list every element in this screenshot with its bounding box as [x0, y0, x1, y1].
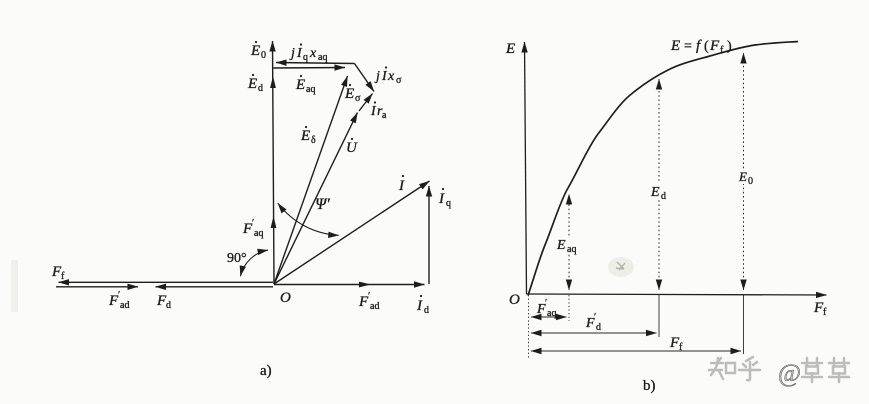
arrowhead Ed on axis: [270, 76, 276, 88]
label E delta: [300, 126, 316, 146]
axis Ff horizontal: [527, 294, 827, 295]
svg-text:d: d: [661, 191, 666, 202]
glyph cao 2: [829, 358, 849, 382]
dimension row F'd: [531, 332, 657, 334]
label Ff axis: [813, 300, 827, 318]
extension line left below axis: [528, 295, 530, 358]
svg-text:E: E: [556, 238, 566, 253]
svg-text:aq: aq: [547, 308, 556, 319]
svg-text:aq: aq: [318, 52, 327, 63]
arrowhead F'ad on right horizontal: [359, 282, 371, 288]
label E0: [250, 41, 266, 61]
label Id: [416, 295, 429, 316]
label Iq: [438, 188, 451, 209]
dimension row F'aq: [531, 316, 567, 318]
svg-text:E: E: [344, 86, 354, 102]
vector Ira: [359, 94, 373, 112]
label Ira: [370, 101, 387, 121]
svg-text:E: E: [247, 76, 257, 92]
svg-text:x: x: [309, 46, 317, 61]
wire horizontal right with Id arrow: [274, 284, 425, 286]
arrowhead F'aq on axis: [271, 216, 277, 228]
vector Eaq horizontal: [274, 67, 346, 70]
svg-text:ad: ad: [120, 300, 129, 311]
extension line at Ed below axis: [658, 295, 660, 337]
glyph zhi: [709, 358, 735, 379]
label jIx sigma: [374, 66, 402, 86]
svg-text:aq: aq: [567, 244, 576, 255]
svg-text:=: =: [684, 39, 692, 54]
svg-text:a): a): [260, 363, 272, 379]
svg-text:O: O: [509, 292, 520, 308]
label Ed: [247, 74, 263, 94]
svg-text:d: d: [166, 300, 171, 311]
glyph cao 1: [802, 358, 822, 382]
svg-text:F: F: [709, 38, 720, 54]
svg-text:I: I: [398, 178, 405, 194]
label Eaq: [295, 75, 315, 95]
svg-text:d: d: [596, 322, 601, 333]
vector Fd segment: [156, 286, 274, 288]
svg-text:E: E: [738, 169, 747, 184]
svg-text:aq: aq: [254, 228, 263, 239]
extension line at Eaq below axis: [568, 295, 570, 321]
watermark zhihu at caocao: [709, 357, 849, 387]
label I: [398, 175, 405, 194]
svg-text:0: 0: [261, 50, 266, 61]
svg-text:E: E: [505, 41, 515, 57]
svg-text:σ: σ: [355, 93, 361, 104]
label E sigma: [344, 84, 361, 104]
svg-text:b): b): [643, 378, 656, 394]
svg-text:ad: ad: [370, 301, 379, 312]
svg-text:O: O: [280, 290, 291, 306]
vector F'ad left segment: [56, 286, 138, 288]
label Eaq dim: [556, 236, 584, 255]
curve E=f(Ff): [528, 42, 798, 296]
svg-text:0: 0: [748, 176, 753, 187]
label F'd dim: [585, 312, 601, 333]
angle arc 90 degrees: [240, 250, 268, 276]
dimension line Ed vertical: [658, 79, 660, 290]
label F'aq dim: [536, 298, 556, 319]
faint left edge smear: [11, 260, 18, 312]
dimension line Eaq vertical: [568, 194, 570, 290]
label jIq xaq: [289, 43, 327, 63]
vector E_sigma long diagonal: [274, 76, 348, 284]
svg-text:U: U: [346, 140, 358, 156]
label Ff left: [51, 264, 65, 282]
axis E vertical: [525, 42, 527, 294]
vector Iq vertical: [428, 186, 430, 284]
svg-text:aq: aq: [306, 84, 315, 95]
smudge: [608, 257, 634, 277]
svg-text:E: E: [300, 128, 310, 144]
q-axis vertical line with E0 arrow: [273, 41, 275, 284]
svg-text:q: q: [303, 52, 308, 63]
label F'ad left: [108, 290, 129, 311]
label Fd: [156, 293, 171, 311]
angle arc psi: [278, 203, 339, 235]
wire jIqxaq horizontal: [276, 63, 355, 64]
svg-text:d: d: [424, 305, 429, 316]
label F'ad right: [358, 291, 379, 312]
svg-text:@: @: [778, 360, 801, 387]
svg-text:I: I: [416, 298, 423, 314]
svg-text:E: E: [670, 38, 680, 54]
label F'aq: [242, 218, 263, 239]
dimension row Ff: [531, 350, 741, 352]
glyph hu: [739, 357, 760, 380]
svg-text:d: d: [258, 83, 263, 94]
label E0 dim: [738, 169, 755, 187]
svg-text:E: E: [250, 43, 260, 59]
svg-text:): ): [727, 39, 732, 54]
label Ff dim: [669, 335, 683, 353]
dimension line E0 vertical: [743, 53, 745, 290]
vector Ff to the left: [59, 281, 274, 283]
svg-text:x: x: [387, 69, 395, 84]
svg-text:E: E: [650, 185, 660, 200]
svg-text:90°: 90°: [227, 251, 247, 266]
svg-text:Ψ′: Ψ′: [315, 196, 330, 213]
svg-text:δ: δ: [311, 135, 316, 146]
svg-text:I: I: [438, 191, 445, 207]
vector I: [274, 181, 430, 284]
label Ed dim: [650, 183, 667, 202]
svg-text:(: (: [704, 39, 709, 54]
extension line at E0 below axis: [743, 295, 745, 354]
svg-text:q: q: [446, 198, 451, 209]
label E=f(Ff): [670, 38, 732, 56]
label U: [346, 138, 358, 156]
vector U: [274, 113, 358, 285]
vector jIx_sigma diagonal: [355, 64, 375, 92]
svg-text:a: a: [382, 110, 387, 121]
svg-text:E: E: [295, 77, 305, 93]
svg-text:σ: σ: [396, 75, 402, 86]
